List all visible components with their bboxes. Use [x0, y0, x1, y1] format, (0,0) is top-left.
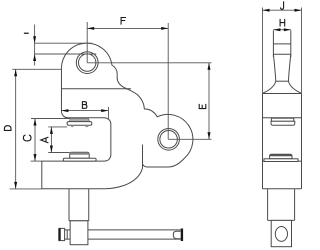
side fork: [271, 220, 291, 246]
C top arrow: [34, 119, 37, 126]
neck bottom line: [276, 80, 289, 82]
J ext right: [301, 8, 303, 94]
bottom jaw pad block: [63, 152, 96, 161]
I bottom arrow (outside): [33, 54, 36, 61]
J left arrow: [263, 9, 270, 12]
A dimension line: [50, 127, 52, 153]
arrowheads: [14, 9, 301, 189]
neck taper right: [288, 54, 290, 81]
top jaw pad serrated block: [67, 118, 92, 127]
tommy bar left knob: [59, 228, 65, 240]
ext line top hole to E: [87, 62, 211, 64]
bar end cap: [181, 229, 183, 242]
eye band lines: [273, 44, 290, 54]
I tangent line 2: [35, 53, 97, 55]
A ext top: [48, 126, 67, 128]
side top pad lower plate: [271, 121, 295, 125]
side bottom pad: [264, 154, 298, 161]
joint line: [263, 93, 302, 95]
label I: [24, 33, 29, 34]
right hole outer: [158, 129, 180, 151]
side ceiling line: [263, 117, 302, 119]
label D: [4, 126, 12, 131]
trumpet right: [288, 81, 301, 93]
bottom pad serration band: [70, 152, 89, 154]
H left arrow: [273, 28, 280, 31]
right hole inner: [160, 131, 178, 149]
D top arrow: [14, 69, 17, 76]
E top arrow: [208, 63, 211, 70]
C bottom arrow: [34, 154, 37, 161]
B right arrow: [101, 109, 108, 112]
tommy bar left stub: [65, 230, 71, 239]
trumpet left: [263, 81, 276, 93]
label A: [41, 137, 49, 143]
side top pad upper ring: [271, 118, 295, 125]
label F: [121, 17, 126, 25]
F left arrow: [87, 27, 94, 30]
ext line right hole to E: [168, 138, 211, 140]
top jaw pad teeth feet: [71, 125, 74, 127]
top jaw pad plate: [67, 122, 92, 126]
F dimension line: [87, 27, 168, 29]
label B: [82, 101, 87, 109]
boss joint line across body: [61, 88, 131, 90]
J right arrow: [295, 9, 302, 12]
D ext bottom: [10, 188, 42, 190]
screw shaft (front view): [69, 189, 89, 221]
H right arrow: [284, 28, 291, 31]
H dimension line / eye top edge: [273, 29, 290, 31]
A ext bottom: [48, 152, 69, 154]
C dimension line: [34, 119, 36, 162]
I dimension line: [34, 25, 36, 66]
I top arrow (outside): [33, 36, 36, 43]
top hole inner: [79, 54, 96, 71]
neck taper left: [273, 54, 275, 81]
E dimension line: [208, 63, 210, 140]
tommy bar right inner detail: [173, 231, 180, 239]
label J: [281, 1, 284, 9]
C ext top: [31, 118, 70, 120]
eye sides: [273, 30, 290, 57]
side screw shaft: [268, 189, 295, 221]
E bottom arrow: [208, 132, 211, 139]
side bar hole: [275, 227, 287, 242]
body right edge segment under lug: [142, 145, 144, 165]
side floor line: [263, 160, 302, 162]
J ext left: [262, 8, 264, 94]
B ext right: [108, 107, 110, 119]
center line top hole: [86, 22, 88, 63]
label C: [23, 135, 31, 141]
side body: [263, 94, 302, 189]
bottom jaw pad plate: [63, 158, 96, 161]
top hole outer: [76, 52, 98, 74]
B dimension line: [61, 110, 108, 112]
B left arrow: [61, 109, 68, 112]
A top arrow: [50, 127, 53, 134]
screw collar: [70, 221, 88, 245]
D ext top: [12, 68, 61, 70]
clamp body outline (front view): [42, 43, 193, 189]
knob dark edge: [58, 228, 60, 240]
label E: [199, 104, 207, 109]
labels (drawn as paths): [4, 1, 285, 143]
label H: [280, 19, 285, 27]
F right arrow: [161, 27, 168, 30]
center line right hole: [167, 23, 169, 139]
A bottom arrow: [50, 146, 53, 153]
D dimension line: [15, 69, 17, 189]
tommy bar right part: [88, 230, 181, 239]
D bottom arrow: [14, 182, 17, 189]
J dimension line: [263, 9, 302, 11]
C ext bottom: [31, 160, 42, 162]
I tangent line 1: [35, 42, 92, 44]
